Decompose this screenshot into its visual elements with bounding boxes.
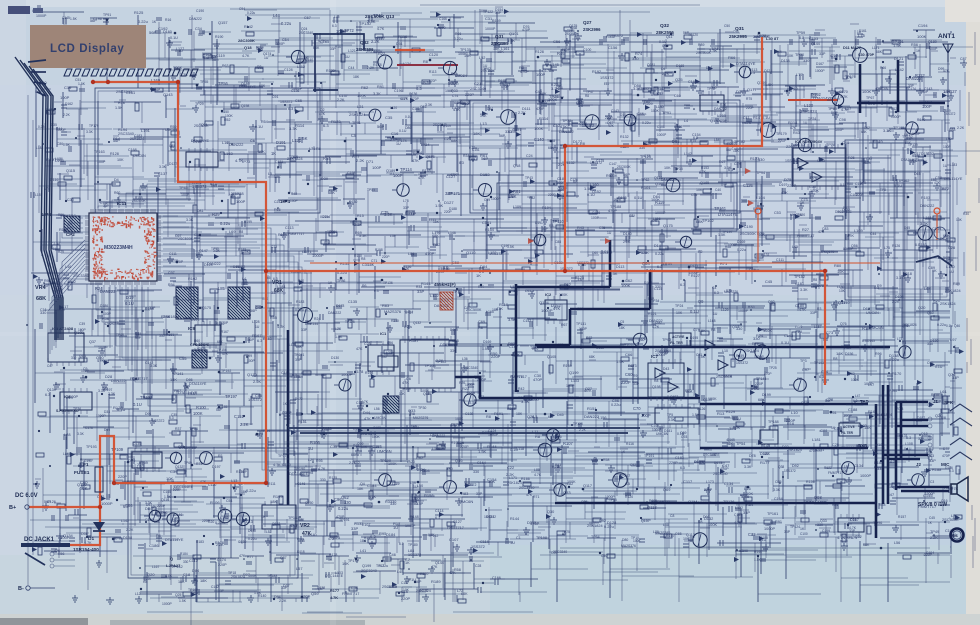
svg-text:DAN222: DAN222 [328, 311, 341, 315]
svg-text:33P: 33P [908, 84, 915, 88]
svg-text:C164: C164 [774, 497, 783, 501]
svg-text:1SS372: 1SS372 [944, 112, 956, 116]
svg-text:DAN222: DAN222 [920, 204, 934, 208]
svg-text:Q121: Q121 [764, 69, 772, 73]
svg-text:1K: 1K [152, 20, 157, 24]
svg-text:C65: C65 [846, 479, 852, 483]
svg-text:6.3: 6.3 [257, 339, 262, 343]
svg-text:470P: 470P [336, 515, 345, 519]
svg-text:UMC6N: UMC6N [876, 87, 889, 91]
svg-text:100P: 100P [181, 193, 190, 197]
svg-text:R144: R144 [310, 322, 318, 326]
svg-text:68K: 68K [758, 398, 765, 402]
svg-text:1SS372: 1SS372 [484, 515, 496, 519]
svg-text:1U: 1U [308, 446, 313, 451]
svg-text:R34: R34 [463, 154, 469, 158]
svg-text:D51: D51 [396, 42, 403, 46]
svg-text:0.1U: 0.1U [634, 195, 643, 200]
svg-text:Q4: Q4 [360, 482, 365, 486]
svg-text:C108: C108 [657, 125, 665, 129]
svg-text:18K: 18K [619, 326, 626, 330]
svg-text:Q101: Q101 [509, 31, 519, 36]
svg-text:C113: C113 [285, 226, 294, 230]
svg-text:1.5K: 1.5K [299, 136, 308, 141]
svg-text:L47: L47 [855, 394, 861, 398]
svg-text:2.2K: 2.2K [240, 422, 249, 427]
svg-text:330: 330 [817, 523, 823, 527]
svg-text:L161: L161 [923, 215, 933, 220]
svg-text:0.1U: 0.1U [241, 282, 249, 286]
svg-text:R128: R128 [535, 50, 544, 54]
svg-text:3.3K: 3.3K [289, 126, 298, 131]
svg-text:C44: C44 [348, 66, 354, 70]
svg-text:6.3: 6.3 [874, 286, 879, 290]
svg-text:L75: L75 [309, 147, 315, 151]
svg-text:0.22u: 0.22u [404, 325, 412, 329]
svg-text:18K: 18K [357, 487, 364, 491]
svg-text:56P: 56P [683, 31, 690, 35]
svg-text:1SS372: 1SS372 [280, 100, 293, 104]
svg-text:L121: L121 [348, 49, 356, 53]
svg-text:2SK1824: 2SK1824 [349, 112, 366, 117]
svg-text:2SK1824: 2SK1824 [587, 524, 603, 528]
svg-text:C111: C111 [776, 258, 784, 262]
svg-text:1000P: 1000P [815, 69, 825, 73]
svg-text:0.1U: 0.1U [405, 115, 412, 119]
svg-text:Q18: Q18 [921, 432, 928, 436]
svg-text:R35: R35 [748, 305, 754, 309]
svg-text:47K: 47K [412, 159, 419, 163]
svg-text:TP91: TP91 [352, 121, 361, 125]
svg-text:18K: 18K [473, 131, 480, 136]
svg-text:L10: L10 [791, 410, 798, 415]
svg-text:100K: 100K [567, 480, 576, 484]
svg-text:3.3K: 3.3K [367, 19, 376, 24]
svg-text:1000P: 1000P [738, 309, 749, 313]
svg-text:R13: R13 [717, 411, 725, 416]
svg-text:TP30: TP30 [795, 53, 804, 57]
svg-text:C54: C54 [226, 499, 232, 503]
svg-text:FMMT717: FMMT717 [797, 234, 814, 238]
svg-text:2SC500K: 2SC500K [132, 199, 147, 203]
svg-text:R66: R66 [880, 66, 886, 70]
svg-text:470P: 470P [530, 521, 540, 526]
svg-text:100P: 100P [81, 369, 90, 373]
svg-text:L78: L78 [403, 199, 409, 203]
svg-text:MA2S376: MA2S376 [413, 416, 428, 420]
svg-text:C188: C188 [848, 407, 857, 412]
svg-text:R89: R89 [698, 43, 704, 47]
svg-text:D172: D172 [295, 397, 303, 401]
svg-text:0.22u: 0.22u [611, 403, 621, 407]
svg-text:10K: 10K [676, 311, 683, 315]
svg-text:4.7K: 4.7K [361, 400, 369, 404]
svg-text:TP102: TP102 [702, 218, 715, 223]
svg-text:R127: R127 [691, 274, 700, 278]
svg-text:D92: D92 [599, 519, 606, 523]
svg-text:470P: 470P [220, 321, 229, 325]
svg-text:Q37: Q37 [89, 340, 96, 344]
svg-text:1U: 1U [607, 231, 612, 235]
svg-text:R129: R129 [726, 410, 735, 414]
svg-text:330: 330 [758, 157, 765, 162]
svg-text:3.3K: 3.3K [773, 488, 781, 492]
svg-text:33P: 33P [330, 47, 336, 51]
svg-text:D4: D4 [114, 178, 119, 182]
svg-text:C53: C53 [774, 211, 781, 215]
svg-text:R183: R183 [296, 300, 304, 304]
svg-text:TP125: TP125 [345, 320, 355, 324]
svg-text:Q105: Q105 [547, 355, 556, 359]
svg-text:3.3K: 3.3K [86, 130, 94, 134]
svg-text:R3: R3 [549, 224, 553, 228]
svg-text:R8: R8 [833, 357, 838, 361]
svg-text:68K: 68K [589, 355, 596, 359]
svg-text:47K: 47K [943, 69, 950, 73]
svg-text:R167: R167 [188, 391, 197, 396]
svg-text:C39: C39 [79, 322, 85, 326]
svg-text:1U: 1U [630, 214, 635, 218]
svg-text:C55: C55 [691, 193, 697, 197]
svg-text:3.3K: 3.3K [186, 218, 194, 222]
svg-text:R103: R103 [921, 196, 930, 200]
svg-text:2.2K: 2.2K [63, 113, 71, 117]
svg-text:L36: L36 [462, 357, 468, 361]
svg-text:D4: D4 [661, 67, 666, 71]
svg-text:4.7K: 4.7K [318, 467, 326, 471]
svg-text:L109: L109 [513, 205, 521, 209]
svg-text:3.3K: 3.3K [384, 212, 393, 217]
svg-text:1SS372: 1SS372 [590, 161, 602, 165]
svg-text:FMMT717: FMMT717 [288, 232, 304, 236]
svg-text:1U: 1U [345, 55, 350, 59]
svg-text:L13: L13 [480, 121, 487, 126]
svg-text:47K: 47K [450, 172, 457, 177]
svg-text:R169: R169 [492, 19, 501, 23]
svg-text:47K: 47K [402, 380, 409, 385]
svg-text:TP56: TP56 [218, 81, 229, 86]
svg-text:C151: C151 [234, 414, 245, 419]
svg-text:56P: 56P [250, 309, 257, 313]
svg-text:6.3: 6.3 [949, 469, 954, 473]
svg-text:100P: 100P [835, 128, 844, 132]
svg-text:C3: C3 [930, 480, 934, 484]
svg-text:L28: L28 [64, 432, 71, 437]
svg-text:R198: R198 [375, 248, 383, 252]
svg-text:TP179: TP179 [89, 124, 99, 128]
svg-text:R116: R116 [626, 442, 634, 446]
svg-text:R54: R54 [261, 120, 268, 124]
svg-text:100K: 100K [357, 93, 366, 98]
svg-text:Q179: Q179 [77, 482, 87, 487]
svg-text:470P: 470P [425, 251, 435, 256]
svg-text:100P: 100P [98, 346, 107, 350]
svg-text:Q124: Q124 [539, 300, 550, 305]
svg-text:R157: R157 [898, 515, 906, 519]
svg-text:D153: D153 [480, 172, 490, 177]
svg-text:R15: R15 [357, 214, 364, 218]
svg-text:330: 330 [393, 319, 399, 323]
svg-text:33P: 33P [743, 510, 750, 515]
svg-text:R121: R121 [648, 312, 657, 316]
svg-text:1.5K: 1.5K [943, 89, 952, 94]
svg-text:0.22u: 0.22u [454, 37, 463, 41]
svg-text:D137: D137 [169, 162, 177, 166]
svg-text:C88: C88 [820, 428, 828, 433]
svg-text:2.2K: 2.2K [623, 240, 631, 244]
svg-text:1000P: 1000P [657, 133, 666, 137]
svg-text:330: 330 [736, 327, 742, 331]
svg-text:470P: 470P [520, 70, 529, 74]
svg-text:C145: C145 [163, 490, 171, 494]
svg-text:1000P: 1000P [101, 501, 113, 506]
svg-text:D199: D199 [762, 393, 771, 397]
svg-text:56P: 56P [247, 337, 254, 342]
svg-text:L128: L128 [252, 320, 260, 324]
svg-text:6.3: 6.3 [799, 36, 804, 40]
svg-text:TP163: TP163 [94, 150, 105, 154]
svg-text:1SS372: 1SS372 [489, 252, 503, 256]
svg-text:1.5K: 1.5K [718, 233, 726, 237]
svg-text:1K: 1K [271, 151, 276, 156]
svg-text:R3: R3 [817, 307, 821, 311]
svg-text:L56: L56 [374, 407, 380, 411]
svg-text:R96: R96 [875, 352, 882, 356]
svg-text:TP124: TP124 [790, 525, 800, 529]
svg-text:C24: C24 [526, 154, 533, 158]
svg-text:3.3K: 3.3K [159, 165, 167, 169]
svg-text:1U: 1U [803, 121, 808, 125]
svg-text:TP114: TP114 [400, 167, 412, 172]
svg-text:Q143: Q143 [163, 92, 173, 97]
svg-text:33P: 33P [784, 530, 791, 534]
svg-text:330: 330 [320, 478, 326, 482]
svg-text:220P: 220P [382, 255, 389, 259]
svg-text:6.3: 6.3 [45, 393, 50, 397]
svg-text:TP191: TP191 [644, 454, 654, 458]
svg-text:C190: C190 [744, 225, 753, 229]
svg-text:L5: L5 [268, 172, 272, 176]
svg-text:68K: 68K [876, 50, 883, 54]
svg-text:L16: L16 [222, 141, 228, 145]
svg-text:D39: D39 [321, 177, 328, 181]
svg-text:Q170: Q170 [826, 250, 834, 254]
svg-text:R16: R16 [165, 18, 171, 22]
svg-text:R102: R102 [188, 276, 197, 281]
svg-text:1U: 1U [569, 33, 574, 37]
svg-text:4.7K: 4.7K [584, 389, 592, 393]
svg-text:D168: D168 [676, 64, 684, 68]
svg-text:L112: L112 [297, 65, 305, 69]
svg-text:6.3: 6.3 [680, 283, 685, 287]
svg-text:C70: C70 [633, 406, 641, 411]
svg-text:L173: L173 [706, 480, 714, 484]
svg-text:R58: R58 [102, 317, 109, 321]
svg-text:C59: C59 [484, 198, 490, 202]
svg-text:1U: 1U [213, 183, 218, 187]
svg-text:Q46: Q46 [954, 324, 960, 328]
svg-text:UMC6N: UMC6N [455, 74, 467, 78]
svg-text:R91: R91 [377, 85, 384, 89]
svg-text:R42: R42 [518, 387, 524, 391]
svg-text:L75: L75 [884, 246, 890, 250]
svg-text:C28: C28 [948, 245, 955, 250]
svg-text:L107: L107 [362, 523, 370, 527]
svg-text:TP24: TP24 [675, 304, 683, 308]
svg-text:D140: D140 [623, 232, 632, 236]
svg-text:1SS372: 1SS372 [609, 33, 624, 38]
svg-text:330: 330 [40, 311, 46, 315]
svg-text:1SS372: 1SS372 [784, 469, 796, 473]
svg-text:2SC3340: 2SC3340 [299, 31, 313, 35]
svg-text:C143: C143 [611, 109, 619, 113]
svg-text:C33: C33 [103, 360, 109, 364]
svg-text:33P: 33P [633, 382, 640, 386]
svg-text:C35: C35 [385, 115, 393, 120]
svg-text:C135: C135 [348, 300, 357, 304]
svg-text:R154: R154 [485, 228, 494, 232]
svg-text:D44: D44 [363, 411, 370, 415]
svg-text:100P: 100P [372, 165, 382, 170]
svg-text:R132: R132 [236, 264, 245, 269]
svg-text:C153: C153 [809, 37, 818, 41]
svg-text:R60: R60 [114, 191, 120, 195]
svg-text:TP131: TP131 [576, 322, 586, 326]
svg-text:TP38: TP38 [234, 191, 244, 196]
svg-text:C97: C97 [802, 367, 809, 372]
svg-text:C164: C164 [477, 461, 486, 465]
svg-text:1SS372: 1SS372 [736, 361, 748, 365]
svg-text:68K: 68K [861, 130, 868, 134]
svg-text:0.22u: 0.22u [138, 19, 148, 24]
svg-text:R166: R166 [521, 477, 530, 481]
svg-text:TP30: TP30 [418, 406, 426, 410]
svg-text:56P: 56P [44, 500, 51, 504]
svg-text:Q199: Q199 [569, 370, 579, 375]
svg-text:R27: R27 [802, 228, 809, 232]
svg-text:18K: 18K [758, 232, 765, 237]
svg-text:Q110: Q110 [466, 250, 476, 255]
svg-text:L168: L168 [708, 319, 716, 323]
svg-text:2SC3340: 2SC3340 [470, 86, 487, 91]
svg-text:R8: R8 [239, 230, 243, 234]
svg-text:0.1U: 0.1U [510, 448, 518, 452]
svg-text:C104: C104 [508, 130, 516, 134]
svg-text:47K: 47K [356, 347, 363, 351]
svg-text:6.3: 6.3 [459, 161, 464, 165]
svg-text:10K: 10K [243, 250, 250, 254]
svg-text:6.3: 6.3 [416, 86, 422, 91]
svg-text:UMC6N: UMC6N [459, 499, 473, 504]
svg-text:0.1U: 0.1U [405, 309, 413, 314]
svg-text:C40: C40 [715, 188, 721, 192]
svg-text:TP59: TP59 [796, 31, 805, 35]
svg-text:C190: C190 [196, 9, 204, 13]
svg-text:R80: R80 [834, 263, 842, 268]
svg-text:L97: L97 [950, 337, 957, 342]
svg-text:Q76: Q76 [840, 322, 847, 326]
svg-text:2SK1824: 2SK1824 [876, 412, 893, 417]
svg-text:R111: R111 [268, 482, 276, 486]
svg-text:D64: D64 [480, 264, 488, 269]
svg-text:C145: C145 [923, 493, 933, 498]
svg-text:R8: R8 [654, 379, 658, 383]
svg-text:1000P: 1000P [341, 372, 353, 377]
svg-text:TP197: TP197 [140, 395, 153, 400]
svg-text:2.2K: 2.2K [518, 111, 526, 115]
svg-text:3.3K: 3.3K [150, 364, 158, 368]
svg-text:R94: R94 [168, 283, 175, 287]
svg-text:C88: C88 [555, 240, 561, 244]
svg-text:C176: C176 [85, 426, 93, 430]
svg-text:10K: 10K [399, 392, 406, 396]
svg-text:L145: L145 [550, 62, 560, 67]
svg-text:100K: 100K [621, 283, 631, 288]
svg-text:TP5: TP5 [667, 413, 673, 417]
svg-text:C117: C117 [683, 479, 693, 484]
svg-text:2SC500K: 2SC500K [716, 375, 733, 379]
svg-text:100K: 100K [455, 417, 464, 421]
svg-text:TP165: TP165 [893, 125, 904, 130]
svg-text:R8: R8 [535, 434, 541, 439]
svg-text:L156: L156 [598, 416, 606, 420]
svg-text:R188: R188 [932, 467, 941, 472]
svg-text:0.1U: 0.1U [125, 301, 134, 306]
svg-text:18K: 18K [836, 351, 843, 356]
svg-text:R8: R8 [585, 94, 589, 98]
svg-text:4.7K: 4.7K [841, 108, 849, 112]
svg-text:56P: 56P [216, 408, 223, 412]
svg-text:C19: C19 [64, 85, 72, 90]
svg-text:C152: C152 [734, 513, 742, 517]
svg-text:330: 330 [655, 285, 661, 289]
svg-text:C50: C50 [935, 176, 942, 180]
svg-text:220P: 220P [202, 519, 211, 523]
svg-text:100K: 100K [763, 329, 772, 333]
svg-text:Q50: Q50 [927, 311, 934, 315]
svg-text:FMMT717: FMMT717 [447, 526, 464, 530]
svg-text:D169: D169 [737, 240, 745, 244]
svg-text:2.2K: 2.2K [367, 66, 375, 70]
svg-text:1.5K: 1.5K [507, 245, 515, 249]
svg-text:L85: L85 [218, 286, 226, 291]
svg-text:TP197: TP197 [225, 394, 238, 399]
svg-text:100P: 100P [425, 155, 434, 159]
svg-text:C30: C30 [67, 198, 74, 202]
svg-text:R29: R29 [58, 250, 64, 254]
svg-text:TP152: TP152 [794, 275, 805, 279]
svg-text:0.22u: 0.22u [737, 248, 746, 252]
svg-text:L142: L142 [684, 152, 692, 156]
svg-text:100K: 100K [651, 109, 660, 113]
svg-text:Q115: Q115 [66, 169, 75, 173]
svg-text:18K: 18K [733, 149, 740, 153]
svg-text:D169: D169 [483, 340, 491, 344]
svg-text:L45: L45 [792, 245, 798, 249]
svg-text:4.7K: 4.7K [734, 521, 742, 525]
svg-text:R170: R170 [892, 371, 902, 376]
svg-text:1.5K: 1.5K [78, 82, 86, 86]
svg-text:FMMT717: FMMT717 [510, 375, 527, 379]
svg-text:1K: 1K [621, 450, 626, 454]
svg-text:C6: C6 [250, 139, 255, 143]
svg-text:100P: 100P [236, 199, 246, 204]
svg-text:FMMT717: FMMT717 [828, 471, 843, 475]
svg-text:TP43: TP43 [525, 176, 533, 180]
svg-text:TP34: TP34 [420, 142, 430, 147]
svg-text:C60: C60 [625, 372, 633, 377]
svg-text:Q132: Q132 [413, 321, 421, 325]
